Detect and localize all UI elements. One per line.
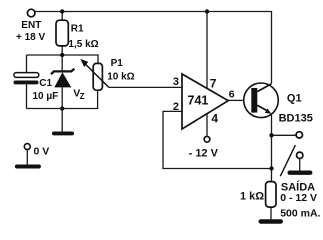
node A dot [60,53,64,57]
zener diode VZ cathode bar [51,69,74,75]
terminal -12V [204,136,210,142]
svg-text:500 mA.: 500 mA. [280,207,320,219]
ground below 1k resistor [259,219,284,224]
wire P1 wiper to pin 3 [109,86,182,88]
wire 0V terminal stub [26,150,28,165]
wire R1 top [61,12,63,21]
wire pin 7 to top rail [206,12,208,89]
svg-text:Q1: Q1 [287,92,302,104]
svg-text:1,5 kΩ: 1,5 kΩ [68,39,98,50]
op-amp U1 741 triangle [182,74,228,129]
svg-text:741: 741 [188,94,209,108]
svg-text:P1: P1 [111,58,124,69]
svg-text:BD135: BD135 [279,113,313,125]
node dot feedback [269,166,273,170]
terminal 0V [24,144,30,150]
svg-text:0 V: 0 V [34,146,50,158]
svg-text:1 kΩ: 1 kΩ [240,191,264,203]
wire emitter node to output terminal [272,134,297,136]
svg-text:4: 4 [211,112,218,126]
svg-text:0 - 12 V: 0 - 12 V [280,192,317,204]
wire node A to P1 top [27,55,99,63]
svg-text:+ 18 V: + 18 V [16,32,46,43]
wire pin 6 to base [228,99,244,101]
capacitor C1 top plate [14,73,39,78]
wire bottom reference rail [27,90,98,108]
wire pin 2 feedback to emitter node [163,111,272,168]
terminal SAIDA + [296,132,302,138]
wire pin 4 to -12V terminal [206,114,208,137]
transistor Q1 circle [244,83,279,118]
svg-text:C1: C1 [39,78,52,89]
resistor R2 1k [266,182,276,208]
terminal ENT [27,9,35,17]
ground below zener node [52,132,74,136]
node dot pin7 rail [205,9,209,13]
transistor Q1 emitter arrowhead [265,108,271,113]
node dot bottom rail [60,106,64,110]
capacitor C1 bottom plate [14,81,39,85]
wire emitter down [271,115,273,182]
svg-text:2: 2 [173,101,179,113]
wire R1 bottom to node A [61,46,63,55]
wire top rail +18V [36,12,272,84]
terminal SAIDA - [297,152,303,158]
svg-text:ENT: ENT [21,20,41,31]
wire C1 top drop [26,55,28,73]
wire zener anode to rail [61,87,63,108]
transistor Q1 base bar [251,88,257,113]
transistor Q1 emitter stroke [257,105,268,111]
wire 1k resistor to ground [270,207,272,219]
svg-text:R1: R1 [71,24,84,35]
resistor R1 [56,20,68,46]
ground below output terminal 2 [288,171,313,175]
wire output terminal 2 stub [299,159,301,171]
potentiometer P1 arrowhead [80,59,88,67]
node dot R1 top [60,9,64,13]
potentiometer P1 body [93,63,102,90]
wire node A to zener cathode [61,55,63,71]
svg-text:10 µF: 10 µF [33,91,59,102]
node dot emitter/output [269,133,273,137]
svg-text:10 kΩ: 10 kΩ [107,72,134,83]
potentiometer P1 wiper arrow shaft [85,64,109,88]
ground below 0V terminal [15,165,41,169]
wire ground stub below zener node [61,109,63,132]
svg-text:7: 7 [210,77,217,91]
svg-text:Z: Z [80,92,85,101]
wire C1 bottom drop [26,84,28,108]
svg-text:- 12 V: - 12 V [189,147,219,159]
zener diode VZ triangle [54,72,71,87]
svg-text:6: 6 [229,89,235,101]
output slash mark [280,145,295,176]
svg-text:3: 3 [173,76,179,88]
transistor Q1 collector stroke [257,84,271,92]
